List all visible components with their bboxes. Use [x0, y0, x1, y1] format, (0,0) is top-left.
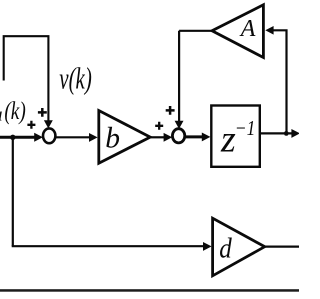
wire: A output to left — [179, 30, 212, 32]
amplifier b (triangle) — [99, 111, 150, 164]
summing node S2 — [172, 129, 184, 143]
arrowhead into amplifier b — [89, 133, 98, 142]
arrowhead into delay block — [202, 133, 211, 142]
svg-text:(k): (k) — [4, 96, 25, 125]
arrowhead into summing node S1 — [34, 133, 43, 142]
svg-text:b: b — [105, 123, 120, 155]
plus sign at S1 top input — [38, 108, 47, 117]
wire: b to summing node S2 — [150, 136, 164, 138]
summing node S1 — [43, 128, 55, 143]
arrowhead at right edge (cut off) — [291, 129, 300, 138]
wire: S1 to amplifier b — [56, 136, 91, 138]
wire: horizontal d-path line — [12, 245, 204, 247]
wire: d output to right edge — [265, 246, 299, 248]
arrowhead into amplifier A right side — [265, 26, 273, 35]
arrowhead into amplifier d — [203, 242, 212, 251]
amplifier A (triangle pointing left) — [212, 5, 263, 58]
wire: left vertical riser up from main line — [4, 36, 49, 121]
wire: feedback riser up to amplifier A — [273, 30, 287, 133]
svg-text:−1: −1 — [235, 116, 256, 140]
wire: main input line from left edge — [0, 136, 35, 139]
plus sign at S2 left input — [155, 122, 163, 130]
wire: delay block output to right edge — [260, 132, 293, 134]
svg-text:z: z — [220, 119, 236, 161]
arrowhead down into summing node S2 top — [175, 121, 184, 129]
svg-text:u: u — [0, 105, 3, 126]
svg-text:v(k): v(k) — [59, 60, 92, 95]
node: junction dot on input line — [10, 135, 15, 140]
plus sign at S2 top input — [166, 106, 175, 115]
arrowhead down into summing node S1 top — [44, 120, 53, 128]
node: junction dot on output line — [284, 131, 289, 136]
wire: branch down from junction to d-path — [12, 137, 14, 246]
plus sign at S1 left input — [27, 121, 35, 129]
delay block z^-1 — [211, 106, 259, 167]
wire: down into S2 top — [178, 31, 180, 122]
arrowhead into summing node S2 — [164, 133, 173, 142]
bottom separator rule — [0, 289, 299, 292]
svg-text:A: A — [239, 16, 256, 42]
svg-text:d: d — [219, 233, 232, 265]
amplifier d (triangle) — [213, 218, 265, 276]
wire: S2 to delay block — [185, 135, 203, 138]
